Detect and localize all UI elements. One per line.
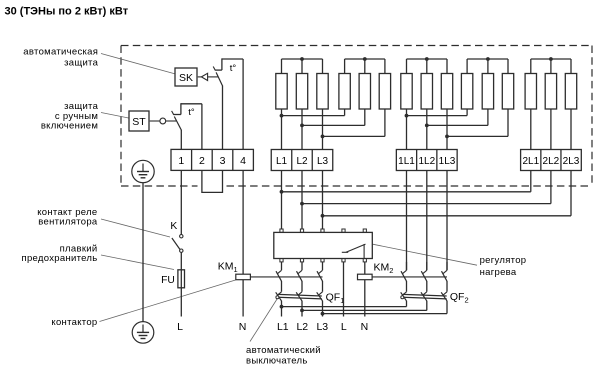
svg-text:ST: ST: [132, 116, 146, 128]
svg-text:SK: SK: [179, 72, 193, 84]
heater element group1-B-2: [359, 74, 370, 110]
svg-text:KM1: KM1: [218, 261, 238, 275]
wire 2L2 down to bus: [550, 171, 552, 204]
label L2 supply: [296, 321, 308, 333]
actuator arrow SK: [198, 73, 218, 80]
svg-text:KM2: KM2: [374, 261, 394, 275]
label L (phase in): [177, 321, 183, 333]
svg-text:автоматический: автоматический: [246, 345, 321, 356]
pointer to QF1: [250, 299, 277, 342]
svg-text:L: L: [177, 321, 183, 333]
wire heater group3-2 to terminal: [550, 109, 552, 150]
svg-text:N: N: [239, 321, 247, 333]
heater element group2-A-1: [401, 74, 412, 110]
svg-text:3: 3: [220, 155, 226, 167]
wire terminal4 up to SK switch: [242, 59, 244, 150]
wire L1 terminal down to regulator pin: [281, 171, 283, 230]
label QF2: [450, 291, 469, 305]
heater element group1-A-3: [317, 74, 328, 110]
node supply L3: [321, 312, 325, 316]
label L1 supply: [277, 321, 289, 333]
svg-text:регулятор: регулятор: [480, 255, 527, 266]
thermal sensor SK: [175, 68, 197, 86]
node L3 branch: [321, 214, 325, 218]
heater element group2-B-1: [461, 74, 472, 110]
wire heater group2-A-2 to terminal: [425, 109, 429, 150]
wire KM1 coil to N: [242, 280, 244, 317]
svg-text:L1: L1: [276, 156, 288, 167]
ground earth symbol (external): [132, 322, 154, 344]
star wire group1-A: [282, 57, 323, 73]
svg-text:защита: защита: [64, 57, 99, 68]
svg-text:2: 2: [199, 155, 205, 167]
ST t-switch (terminal 1 to 2): [172, 103, 202, 130]
fuse FU: [178, 270, 185, 288]
svg-text:L2: L2: [296, 321, 308, 333]
SK t-switch (terminal 3 to 4): [213, 58, 243, 86]
heater element group2-B-2: [482, 74, 493, 110]
heater element group3-1: [525, 74, 536, 110]
wire group2-B-3 to node: [447, 109, 508, 136]
svg-text:выключатель: выключатель: [246, 355, 308, 366]
terminal block 2L1 2L2 2L3: [521, 150, 582, 171]
star wire group2-A: [407, 57, 448, 73]
wire terminal2 up to ST switch: [201, 104, 203, 150]
svg-text:1L3: 1L3: [439, 156, 456, 167]
breaker QF1 pole 1: [276, 292, 282, 301]
svg-text:L: L: [341, 321, 347, 333]
breaker QF1 pole 3: [317, 292, 323, 301]
node supply L2: [300, 309, 304, 313]
label: контактор: [51, 317, 97, 328]
jumper terminals 2-3: [202, 170, 223, 192]
svg-text:L2: L2: [296, 156, 308, 167]
contactor KM1 main contact pole 2: [297, 262, 303, 292]
svg-text:L3: L3: [316, 321, 328, 333]
svg-text:t°: t°: [188, 107, 195, 118]
QF1 linkage bar: [276, 294, 322, 299]
contactor KM2 main contact pole 3: [442, 262, 448, 292]
label: защита с ручным включением: [41, 101, 99, 132]
wire terminal4 down to KM1 coil: [242, 170, 244, 274]
heat regulator box: [274, 232, 373, 258]
star wire group3: [531, 57, 571, 73]
wire 1L3 down to KM2 contact: [446, 171, 448, 271]
contactor KM1 main contact pole 3: [317, 262, 323, 292]
svg-text:4: 4: [240, 155, 246, 167]
wire QF1 pole1 down: [281, 301, 283, 317]
wire QF2 pole1 to L1 node: [282, 301, 407, 307]
heater element group3-2: [545, 74, 556, 110]
wire QF2 pole2 to L2 node: [302, 301, 427, 311]
svg-text:2L2: 2L2: [543, 156, 560, 167]
svg-text:2L1: 2L1: [522, 156, 539, 167]
pointer to ST: [101, 113, 129, 119]
label L supply: [341, 321, 347, 333]
star wire group2-B: [467, 57, 508, 73]
wire terminal3 up to SK switch: [222, 86, 224, 150]
wire group1-B-3 to node: [323, 109, 385, 136]
pointer to K contact: [101, 219, 170, 237]
wire QF1 pole2 down: [301, 301, 303, 317]
svg-text:FU: FU: [161, 275, 175, 286]
node L2 branch: [300, 202, 304, 206]
svg-text:30 (ТЭНы по 2 кВт) кВт: 30 (ТЭНы по 2 кВт) кВт: [5, 6, 129, 18]
label N (KM1): [239, 321, 247, 333]
wire heater group1-A-3 to terminal: [321, 109, 325, 150]
wire heater group1-A-2 to terminal: [300, 109, 304, 150]
pointer to regulator box: [373, 244, 477, 265]
svg-text:контактор: контактор: [51, 317, 97, 328]
svg-text:2L3: 2L3: [563, 156, 580, 167]
contactor coil KM2: [358, 274, 373, 280]
label: регулятор нагрева: [480, 255, 527, 278]
label K: [170, 221, 177, 232]
label: автоматический выключатель: [246, 345, 321, 367]
heater element group2-A-2: [421, 74, 432, 110]
wire 2L3 down to bus: [570, 171, 572, 216]
QF2 linkage bar: [401, 294, 447, 299]
wire bus to 2L2: [302, 203, 551, 205]
label L3 supply: [316, 321, 328, 333]
wire L3 terminal down to regulator pin: [322, 171, 324, 230]
wire heater group2-A-1 to terminal: [405, 109, 409, 150]
heater element group3-3: [565, 74, 576, 110]
label KM1: [218, 261, 238, 275]
svg-text:K: K: [170, 221, 177, 232]
svg-text:QF2: QF2: [450, 291, 469, 305]
wire bus to 2L3: [323, 215, 572, 217]
pointer to FU: [101, 255, 174, 270]
label N (KM2): [361, 321, 369, 333]
terminal block L1 L2 L3: [271, 150, 333, 171]
svg-text:N: N: [361, 321, 369, 333]
wire 1L1 down to KM2 contact: [406, 171, 408, 271]
svg-text:1L1: 1L1: [398, 156, 415, 167]
label: автоматическая защита: [23, 47, 98, 69]
terminal block 1L1 1L2 1L3: [396, 150, 457, 171]
wire 1L2 down to KM2 contact: [426, 171, 428, 271]
KM2 linkage: [372, 276, 447, 278]
svg-text:1: 1: [178, 155, 184, 167]
wire group2-B-1 to node: [407, 109, 468, 116]
ground PE terminal (in enclosure): [132, 160, 154, 182]
wire heater group3-1 to terminal: [530, 109, 532, 150]
svg-text:включением: включением: [41, 120, 98, 131]
breaker QF1 pole 2: [296, 292, 302, 301]
title text: [5, 6, 129, 18]
label KM2: [374, 261, 394, 275]
contactor coil KM1: [236, 274, 251, 280]
svg-text:L1: L1: [277, 321, 289, 333]
node L1 branch: [280, 190, 284, 194]
heater element group1-B-1: [339, 74, 350, 110]
label QF1: [326, 291, 345, 305]
ST link and manual-reset circle: [150, 118, 177, 124]
breaker QF2 pole 3: [441, 292, 447, 301]
svg-text:предохранитель: предохранитель: [22, 253, 98, 264]
wire heater group1-A-1 to terminal: [280, 109, 284, 150]
wire heater group3-3 to terminal: [570, 109, 572, 150]
wire L2 terminal down to regulator pin: [301, 171, 303, 230]
heater element group1-A-1: [276, 74, 287, 110]
wire K to FU: [180, 252, 182, 269]
svg-text:вентилятора: вентилятора: [38, 217, 98, 228]
thermal protector ST: [129, 111, 149, 131]
wire terminal1 up to ST switch: [180, 130, 182, 150]
wire 2L1 down to bus: [530, 171, 532, 192]
relay contact K: [172, 235, 183, 253]
pointer to SK: [101, 54, 175, 74]
breaker QF2 pole 2: [421, 292, 427, 301]
wire group1-B-1 to node: [282, 109, 345, 116]
wire PE down: [142, 183, 144, 322]
wire group1-B-2 to node: [302, 109, 365, 125]
wire bus to 2L1: [282, 191, 531, 193]
node supply L1: [280, 305, 284, 309]
contactor KM2 main contact pole 1: [401, 262, 407, 292]
wire KM2 coil to N: [364, 280, 366, 317]
wire QF2 pole3 to L3 node: [323, 301, 448, 314]
svg-text:L3: L3: [317, 156, 329, 167]
svg-text:t°: t°: [230, 63, 237, 74]
heater element group1-A-2: [296, 74, 307, 110]
star wire group1-B: [345, 57, 385, 73]
breaker QF2 pole 1: [401, 292, 407, 301]
heater element group1-B-3: [379, 74, 390, 110]
regulator terminal pins: [280, 229, 367, 262]
enclosure dashed border: [121, 46, 592, 187]
heater element group2-A-3: [441, 74, 452, 110]
regulator internal contact: [342, 244, 366, 258]
heater element group2-B-3: [502, 74, 513, 110]
label FU: [161, 275, 175, 286]
wire group2-B-2 to node: [427, 109, 488, 125]
svg-text:автоматическая: автоматическая: [23, 47, 98, 58]
label: контакт реле вентилятора: [37, 207, 98, 228]
svg-text:QF1: QF1: [326, 291, 345, 305]
KM1 linkage: [250, 276, 322, 278]
wire heater group2-A-3 to terminal: [445, 109, 449, 150]
contactor KM2 main contact pole 2: [421, 262, 427, 292]
terminal strip 1 2 3 4: [171, 149, 253, 170]
contactor KM1 main contact pole 1: [276, 262, 282, 292]
svg-text:нагрева: нагрева: [480, 267, 517, 278]
wire terminal1 down to K: [180, 170, 182, 234]
svg-text:1L2: 1L2: [418, 156, 435, 167]
wire regulator L pin down: [343, 262, 345, 317]
label: плавкий предохранитель: [22, 243, 98, 264]
wire QF1 pole3 down: [322, 301, 324, 317]
pointer to KM1 coil: [100, 280, 236, 322]
wire FU down to L: [180, 288, 182, 317]
wire regulator pin to KM2 coil: [364, 262, 366, 274]
